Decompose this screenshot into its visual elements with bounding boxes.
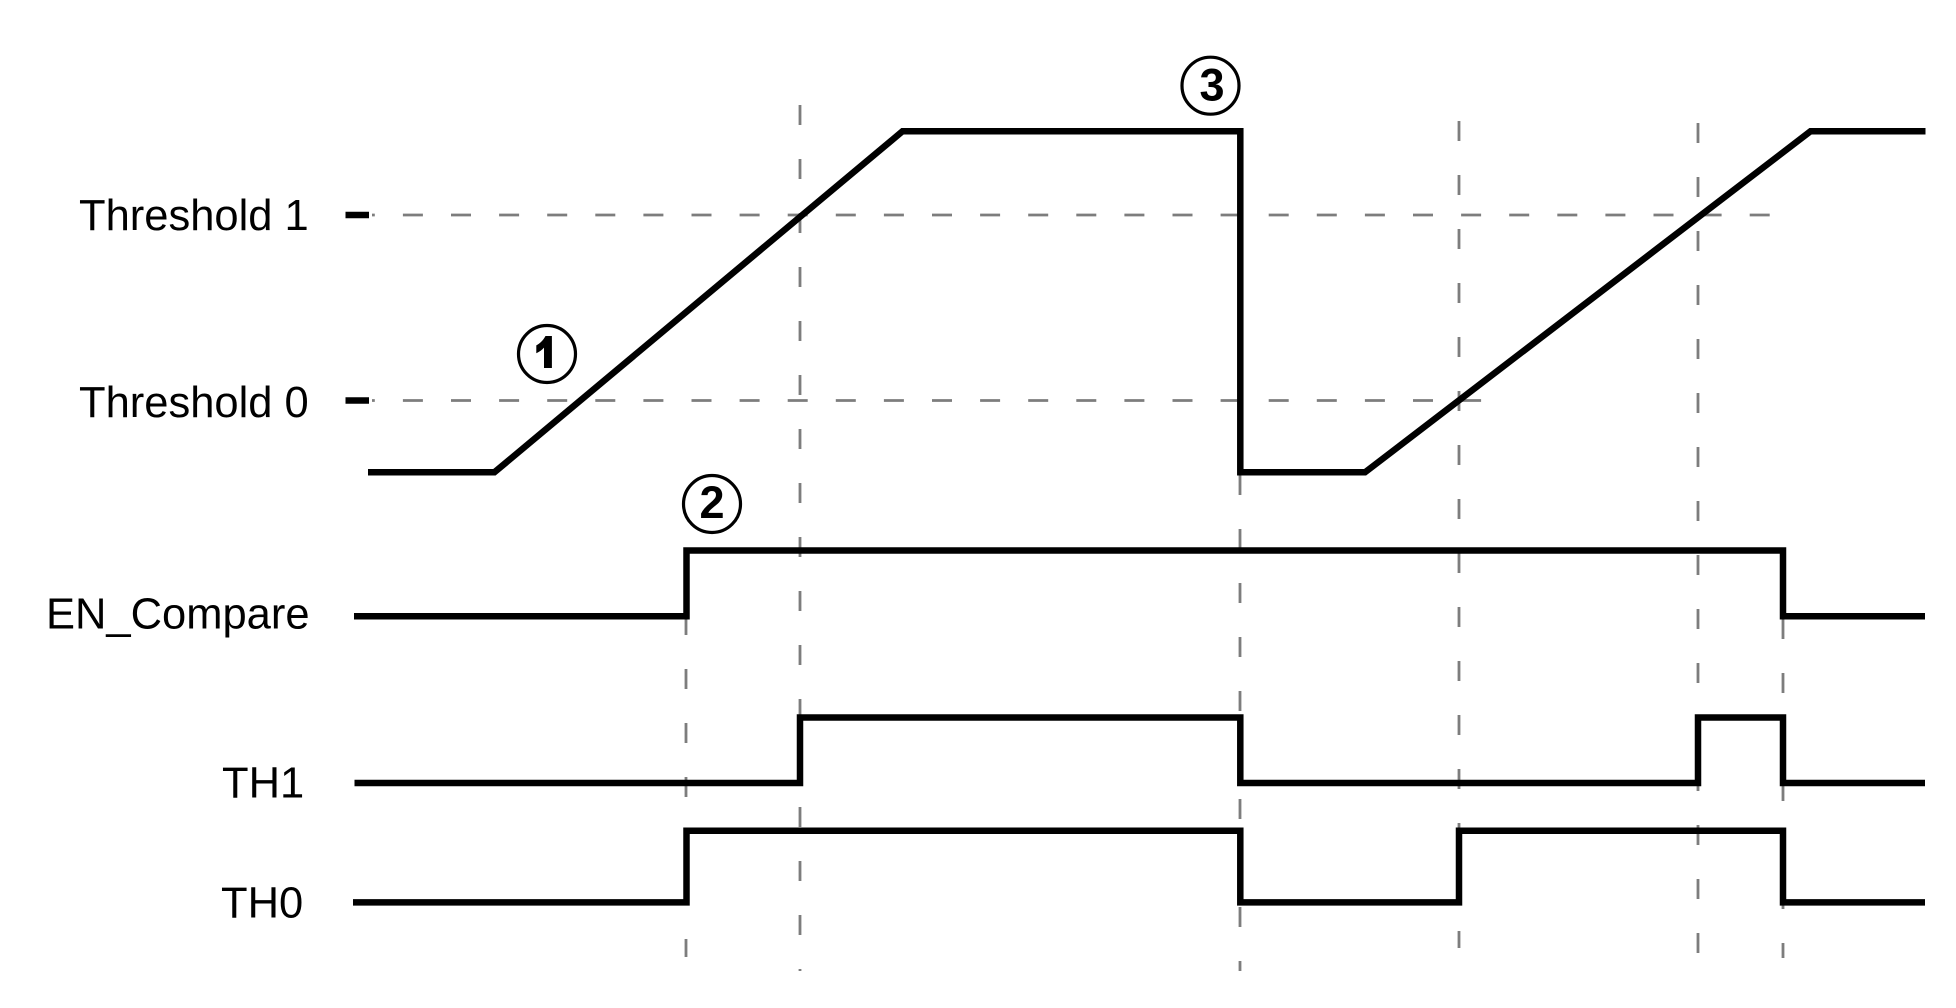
svg-text:EN_Compare: EN_Compare <box>46 591 310 639</box>
svg-text:Threshold 1: Threshold 1 <box>79 192 309 240</box>
svg-text:Threshold 0: Threshold 0 <box>79 379 309 427</box>
svg-text:3: 3 <box>1199 59 1224 110</box>
svg-text:TH1: TH1 <box>222 760 304 808</box>
svg-text:2: 2 <box>699 477 724 528</box>
svg-text:TH0: TH0 <box>221 880 303 928</box>
